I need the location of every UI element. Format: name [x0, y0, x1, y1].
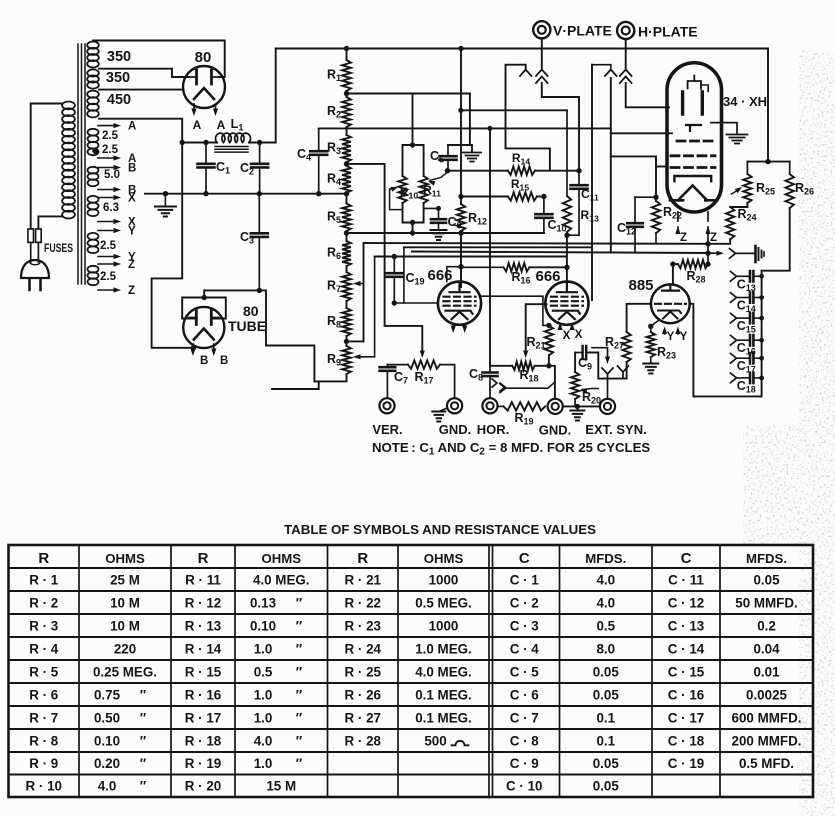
svg-text:8.0: 8.0 — [596, 641, 615, 656]
capacitor C9 — [575, 346, 589, 359]
junction — [202, 295, 207, 300]
svg-text:1000: 1000 — [429, 618, 459, 633]
tube V2 heater arrows X X — [558, 323, 575, 331]
tube 80 filament lead arrows A A — [191, 104, 218, 116]
wire 885 cathode to R23 — [651, 320, 659, 332]
wire rail branch down — [591, 65, 593, 300]
tap arrow A — [98, 123, 121, 128]
resistor R4 — [342, 166, 351, 193]
junction — [670, 261, 675, 266]
svg-text:6.3: 6.3 — [103, 202, 119, 214]
svg-text:2.5: 2.5 — [100, 271, 117, 283]
svg-text:0.75: 0.75 — [94, 687, 121, 702]
svg-text:0.1 MEG.: 0.1 MEG. — [415, 687, 472, 702]
resistor R22 — [652, 201, 660, 233]
svg-text:80: 80 — [243, 303, 259, 319]
resistor R6 — [342, 241, 351, 266]
svg-text:R · 28: R · 28 — [345, 733, 382, 748]
tube 666 V2 — [545, 282, 588, 325]
svg-text:R · 26: R · 26 — [345, 687, 381, 702]
wire filament rail to L1 — [182, 142, 217, 144]
svg-text:X: X — [563, 330, 571, 342]
junction — [458, 230, 463, 235]
svg-text:666: 666 — [535, 268, 560, 285]
svg-text:R · 22: R · 22 — [345, 595, 381, 610]
svg-text:R · 11: R · 11 — [185, 572, 221, 587]
junction — [392, 300, 397, 305]
wire primary to fuses — [31, 104, 63, 229]
svg-text:Y: Y — [680, 331, 688, 343]
resistor R7 — [342, 272, 351, 301]
resistor R28 — [678, 260, 708, 268]
svg-text:Y: Y — [128, 226, 136, 238]
wire R16 line — [460, 266, 504, 268]
wire sync select to C9 line — [592, 347, 608, 349]
svg-text:1.0: 1.0 — [254, 687, 273, 702]
svg-text:A: A — [128, 121, 136, 133]
svg-text:34 · XH: 34 · XH — [723, 94, 767, 109]
svg-text:A: A — [193, 118, 202, 132]
wire 350 tap to 80 cathode side — [99, 89, 183, 91]
capacitor C6 — [424, 208, 447, 240]
svg-text:C · 4: C · 4 — [510, 641, 540, 656]
wire — [346, 301, 348, 308]
wire R21 bottom — [548, 355, 550, 366]
tube 666 V1 — [438, 282, 481, 325]
svg-text:450: 450 — [107, 92, 131, 108]
wire R12 bottom to tube V1 plate — [460, 231, 462, 287]
capacitor C10 — [535, 197, 552, 234]
svg-text:4.0 MEG.: 4.0 MEG. — [253, 572, 310, 587]
svg-text:C: C — [681, 550, 692, 567]
svg-text:C · 10: C · 10 — [506, 779, 542, 794]
svg-text:50 MMFD.: 50 MMFD. — [735, 595, 798, 610]
wire R13 net down to V2 plate — [566, 235, 568, 281]
wire 350 tap to 80 plate — [99, 69, 189, 77]
wire — [346, 162, 348, 166]
AC plug — [21, 260, 49, 290]
capacitor C7 — [380, 365, 396, 398]
wire R3-R4 tap to R17 feed — [347, 164, 423, 352]
resistor R13 — [563, 110, 571, 235]
wire 885 grid to R27 — [627, 304, 651, 332]
svg-text:R: R — [38, 550, 49, 567]
tap arrow Z — [98, 261, 121, 266]
capacitor C8 — [483, 366, 498, 398]
wire R27 bottom — [590, 353, 627, 379]
CRT heater lead Z left — [675, 212, 680, 234]
svg-text:EXT. SYN.: EXT. SYN. — [585, 422, 646, 437]
svg-text:200 MMFD.: 200 MMFD. — [732, 733, 802, 748]
svg-text:666: 666 — [427, 267, 452, 284]
svg-text:Z: Z — [128, 285, 135, 297]
wire V1 V2 coupling — [480, 296, 549, 325]
svg-text:Z: Z — [710, 232, 717, 244]
svg-text:R · 25: R · 25 — [345, 664, 382, 679]
transformer secondary Y winding 2.5 — [88, 233, 99, 253]
junction R15 right — [541, 194, 546, 199]
svg-text:0.0025: 0.0025 — [746, 687, 788, 702]
capacitor C17 — [731, 353, 762, 363]
svg-text:R · 6: R · 6 — [29, 687, 58, 702]
ground at GND2 line — [570, 406, 584, 420]
wire — [346, 49, 348, 61]
R10 tap arrow — [390, 187, 403, 210]
svg-text:80: 80 — [195, 49, 212, 66]
arrow onto R17 — [420, 351, 425, 359]
svg-text:600 MMFD.: 600 MMFD. — [732, 710, 802, 725]
capacitor C18 — [731, 373, 762, 383]
terminal EXT SYN — [600, 399, 615, 414]
junction — [759, 356, 764, 361]
resistor R23 — [647, 332, 655, 357]
resistor R17 — [387, 360, 454, 398]
junction — [163, 191, 168, 196]
svg-text:0.05: 0.05 — [593, 687, 620, 702]
svg-text:1000: 1000 — [429, 572, 459, 587]
transformer secondary A winding 2.5-2.5 — [88, 129, 99, 155]
junction — [564, 265, 569, 270]
resistor R5 — [342, 204, 351, 232]
wire plate line V1 to R16 — [460, 267, 462, 282]
svg-text:0.13: 0.13 — [250, 595, 276, 610]
svg-text:R · 20: R · 20 — [185, 779, 221, 794]
svg-text:B: B — [128, 163, 136, 175]
hatched ground — [463, 153, 481, 162]
wire R1-R2 tap to R10 R11 and C5 net — [347, 93, 470, 95]
capacitor C12 — [627, 197, 656, 252]
svg-text:5.0: 5.0 — [104, 169, 120, 181]
svg-text:R · 5: R · 5 — [29, 664, 59, 679]
svg-text:0.5: 0.5 — [254, 664, 273, 679]
svg-text:R · 8: R · 8 — [29, 733, 59, 748]
svg-text:1.0: 1.0 — [254, 756, 273, 771]
Y chevron line — [500, 382, 555, 393]
junction — [410, 142, 415, 147]
svg-text:4.0: 4.0 — [596, 595, 615, 610]
single chevron near V — [520, 70, 531, 77]
svg-text:0.01: 0.01 — [753, 664, 780, 679]
svg-text:C · 8: C · 8 — [510, 733, 540, 748]
svg-text:350: 350 — [106, 70, 130, 86]
svg-text:X: X — [575, 329, 583, 341]
tube V1 heater arrows — [451, 325, 468, 333]
svg-text:FUSES: FUSES — [44, 243, 73, 255]
transformer primary winding — [62, 102, 75, 219]
resistor R11 — [419, 176, 427, 203]
CRT heater lead Z right — [705, 212, 710, 264]
junction — [344, 46, 349, 51]
junction — [575, 404, 580, 409]
junction — [344, 339, 349, 344]
svg-text:0.05: 0.05 — [593, 664, 620, 679]
resistor R21 — [545, 325, 553, 355]
svg-text:TABLE OF SYMBOLS AND RESISTANC: TABLE OF SYMBOLS AND RESISTANCE VALUES — [284, 522, 596, 537]
CRT deflection plates — [683, 92, 703, 114]
wire down to C5 corner — [469, 94, 471, 146]
wire R18 right — [535, 365, 549, 367]
svg-text:R · 14: R · 14 — [185, 641, 222, 656]
svg-text:1.0: 1.0 — [254, 710, 273, 725]
svg-text:25 M: 25 M — [110, 572, 140, 587]
svg-text:R · 24: R · 24 — [345, 641, 382, 656]
screen rail from C4 top — [319, 127, 611, 129]
junction — [458, 194, 463, 199]
svg-text:HOR.: HOR. — [477, 422, 510, 437]
svg-text:R · 10: R · 10 — [26, 779, 62, 794]
junction — [257, 140, 262, 145]
C bank rail — [761, 271, 763, 397]
CRT internal gun top — [688, 76, 709, 92]
svg-text:R · 3: R · 3 — [29, 618, 58, 633]
capacitor C4 — [310, 128, 327, 193]
svg-text:NOTE : C1 AND C2 = 8 MFD. FOR: NOTE : C1 AND C2 = 8 MFD. FOR 25 CYCLES — [372, 440, 650, 458]
svg-text:MFDS.: MFDS. — [585, 551, 626, 566]
resistor R1 — [342, 60, 351, 91]
svg-text:OHMS: OHMS — [105, 551, 145, 566]
svg-text:OHMS: OHMS — [261, 551, 301, 566]
junction — [564, 233, 569, 238]
resistor R3 — [342, 135, 351, 162]
wire R9 tap arrow to rail — [353, 257, 375, 360]
svg-text:0.5 MFD.: 0.5 MFD. — [739, 756, 794, 771]
svg-text:0.05: 0.05 — [593, 779, 620, 794]
wire B+ to R12 — [460, 49, 462, 205]
svg-text:4.0: 4.0 — [596, 572, 615, 587]
wire R28 left to 885 plate — [672, 264, 674, 284]
junction — [344, 230, 349, 235]
transformer T1 core — [78, 44, 85, 284]
svg-text:4.0 MEG.: 4.0 MEG. — [415, 664, 472, 679]
B+ top rail — [276, 48, 768, 50]
rail b — [404, 246, 592, 248]
svg-text:VER.: VER. — [372, 422, 402, 437]
wire V2 grid left to tap — [526, 304, 547, 352]
wire C3 node to plate box — [204, 290, 259, 297]
ground at GND1 — [432, 408, 447, 422]
winding dot — [92, 148, 98, 154]
sync chevrons above EXT SYN — [602, 348, 613, 399]
table header — [38, 550, 787, 567]
junction — [203, 191, 208, 196]
svg-text:R: R — [357, 550, 368, 567]
svg-text:TUBE: TUBE — [228, 318, 266, 334]
capacitor C16 — [731, 335, 762, 345]
svg-text:H·PLATE: H·PLATE — [638, 24, 698, 40]
wire — [346, 127, 348, 135]
svg-text:MFDS.: MFDS. — [746, 551, 787, 566]
svg-text:C · 14: C · 14 — [668, 641, 705, 656]
svg-text:B: B — [220, 355, 228, 367]
svg-text:R · 23: R · 23 — [345, 618, 381, 633]
junction — [576, 168, 581, 173]
wire focus top bar — [747, 161, 789, 163]
junction — [488, 126, 493, 131]
tube 80 TUBE rectifier — [183, 307, 224, 348]
capacitor C13 — [731, 271, 762, 281]
svg-text:C · 6: C · 6 — [510, 687, 539, 702]
wire R14 node to C11 junction — [550, 170, 579, 172]
svg-text:R · 4: R · 4 — [29, 641, 59, 656]
junction — [445, 168, 450, 173]
svg-text:″: ″ — [140, 779, 147, 794]
table body — [26, 572, 802, 793]
wire R18 left to C8 node — [490, 365, 512, 367]
junction — [344, 91, 349, 96]
junction — [203, 140, 208, 145]
svg-text:R · 13: R · 13 — [185, 618, 221, 633]
tap arrow X — [98, 195, 121, 200]
resistor R19 — [498, 402, 546, 410]
svg-text:B: B — [200, 355, 208, 367]
wire branch to R13 — [461, 109, 567, 111]
junction — [765, 159, 770, 164]
svg-text:R · 9: R · 9 — [29, 756, 58, 771]
junction — [759, 338, 764, 343]
junction — [344, 161, 349, 166]
junction — [180, 140, 185, 145]
table grid — [9, 545, 814, 797]
svg-text:GND.: GND. — [539, 423, 572, 438]
svg-text:0.05: 0.05 — [593, 756, 620, 771]
wire R8-R9 junction to rail — [347, 243, 364, 341]
junction — [410, 230, 415, 235]
svg-text:GND.: GND. — [439, 422, 472, 437]
fuse F1 — [28, 229, 34, 262]
resistor R25 — [743, 162, 751, 203]
svg-text:500: 500 — [424, 733, 446, 748]
resistor R24 — [726, 207, 734, 239]
junction — [546, 323, 551, 328]
resistor R14 — [508, 167, 535, 175]
junction — [705, 241, 710, 246]
CRT screen bracket — [670, 176, 717, 200]
resistor R16 — [504, 263, 530, 271]
wire C5 top corner to ground — [448, 145, 472, 151]
svg-text:0.1: 0.1 — [596, 710, 615, 725]
wire GND2 to EXT SYN — [563, 405, 600, 407]
svg-text:10 M: 10 M — [110, 618, 140, 633]
resistor R2 — [342, 97, 351, 127]
terminal GND 1 — [447, 398, 462, 413]
svg-text:X: X — [128, 193, 136, 205]
svg-text:C · 11: C · 11 — [668, 572, 704, 587]
svg-text:885: 885 — [628, 277, 653, 294]
junction — [257, 288, 262, 293]
svg-text:C: C — [519, 550, 530, 567]
wire R15 right to C10 — [537, 196, 544, 198]
svg-text:V·PLATE: V·PLATE — [553, 23, 612, 39]
svg-text:0.5: 0.5 — [596, 618, 615, 633]
svg-text:0.2: 0.2 — [757, 618, 776, 633]
CRT 34-XH envelope — [667, 63, 722, 212]
resistor R18 — [512, 362, 535, 370]
svg-text:C · 17: C · 17 — [668, 710, 704, 725]
wire top rail right down — [767, 49, 769, 162]
wire branch into CRT grid1 — [611, 132, 672, 134]
junction — [653, 195, 658, 200]
junction — [392, 254, 397, 259]
junction — [705, 251, 710, 256]
terminal H-PLATE — [617, 22, 634, 39]
svg-text:″: ″ — [296, 618, 303, 633]
tap arrow B — [98, 187, 121, 192]
wire R9 loop stub — [272, 381, 319, 389]
svg-text:C · 2: C · 2 — [510, 595, 539, 610]
svg-text:350: 350 — [107, 49, 131, 65]
wire branch into CRT grid3 — [656, 166, 668, 168]
wire R15 line — [461, 196, 508, 198]
terminal V-PLATE — [533, 21, 550, 38]
tap arrow A — [98, 155, 121, 160]
R25 tap arrow — [732, 187, 743, 194]
junction — [546, 363, 551, 368]
svg-text:0.10: 0.10 — [94, 733, 120, 748]
svg-text:0.04: 0.04 — [753, 641, 780, 656]
svg-text:0.10: 0.10 — [250, 618, 276, 633]
wire R14 right to feedback box and V plate chevron — [506, 65, 550, 171]
svg-text:10 M: 10 M — [110, 595, 140, 610]
svg-text:R · 19: R · 19 — [185, 756, 221, 771]
wire down to R10 R11 top — [412, 94, 414, 146]
svg-text:0.05: 0.05 — [753, 572, 780, 587]
resistor R12 — [457, 204, 465, 231]
svg-text:R · 16: R · 16 — [185, 687, 221, 702]
junction — [705, 261, 710, 266]
capacitor C19 — [386, 257, 402, 304]
svg-text:4.0: 4.0 — [98, 779, 117, 794]
wire 450 tap (HV) long run to 80 TUBE — [99, 119, 194, 348]
svg-text:0.20: 0.20 — [94, 756, 120, 771]
capacitor C1 — [198, 143, 215, 194]
resistor R20 — [571, 372, 579, 406]
svg-text:Z: Z — [680, 232, 687, 244]
V-PLATE lead with plate chevrons — [536, 38, 579, 170]
tube 80 rectifier — [183, 66, 225, 108]
wire R7 tap arrow — [353, 281, 364, 286]
svg-text:R · 1: R · 1 — [29, 572, 59, 587]
CRT dashed electrodes — [671, 141, 715, 168]
svg-text:C · 3: C · 3 — [510, 618, 539, 633]
wire — [346, 336, 348, 346]
wire R22 bottom — [655, 233, 657, 244]
svg-text:15 M: 15 M — [266, 779, 296, 794]
svg-text:C · 12: C · 12 — [668, 595, 704, 610]
C8 chevrons — [492, 379, 497, 387]
svg-text:C · 9: C · 9 — [510, 756, 539, 771]
wire primary bottom to fuse 2 — [38, 216, 62, 228]
svg-text:R · 27: R · 27 — [345, 710, 381, 725]
svg-text:R · 21: R · 21 — [345, 572, 382, 587]
junction — [344, 191, 349, 196]
wire grid feed — [403, 247, 405, 303]
tap arrow Y — [98, 254, 121, 259]
wire — [346, 91, 348, 97]
svg-text:C · 5: C · 5 — [510, 664, 540, 679]
wire plate lead — [182, 318, 196, 320]
junction — [316, 191, 321, 196]
wire H input vertical — [489, 128, 491, 365]
svg-text:″: ″ — [296, 595, 303, 610]
wire C5 bottom to R14 — [448, 170, 508, 172]
arrow onto R18 — [523, 351, 528, 359]
svg-text:″: ″ — [140, 687, 147, 702]
junction — [759, 316, 764, 321]
rail d — [375, 256, 567, 258]
svg-text:220: 220 — [114, 641, 136, 656]
junction — [436, 206, 441, 211]
svg-text:C · 7: C · 7 — [510, 710, 539, 725]
